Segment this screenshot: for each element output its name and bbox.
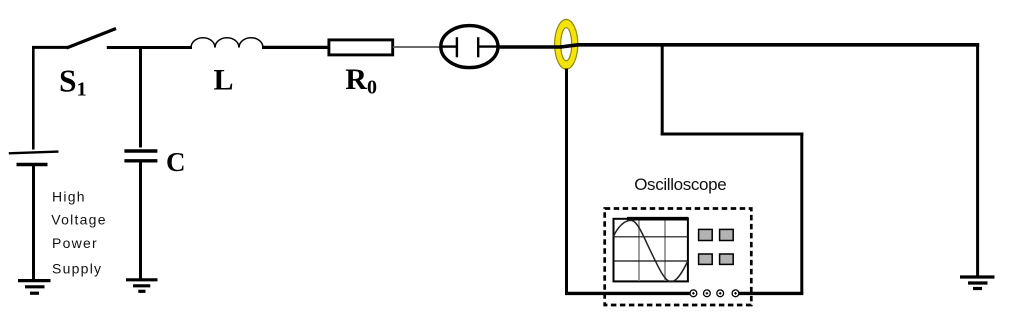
capacitor C: bottom plate xyxy=(124,159,157,162)
wire: vertical down right of scope xyxy=(800,133,803,295)
svg-text:S1: S1 xyxy=(59,63,87,100)
wire: resistor to spark gap (thin) xyxy=(393,46,440,48)
wire: capacitor to ground xyxy=(139,163,142,280)
scope connectors (4 small circles) xyxy=(690,290,739,297)
ground (capacitor) xyxy=(126,280,158,292)
wire: second tap vertical from top wire xyxy=(661,44,664,136)
svg-text:Power: Power xyxy=(52,235,98,251)
ground (right) xyxy=(960,277,995,289)
wire: inductor to resistor xyxy=(262,46,328,49)
wire: ring tap down to scope bottom line xyxy=(565,69,568,295)
wire: battery to ground xyxy=(32,166,35,280)
resistor R0 body xyxy=(329,40,393,55)
spark gap chamber (ellipse) xyxy=(441,26,498,68)
svg-text:High: High xyxy=(52,188,86,204)
svg-text:C: C xyxy=(166,147,186,177)
svg-text:R0: R0 xyxy=(345,63,377,99)
wire: scope bottom line right segment xyxy=(739,292,804,295)
svg-text:Voltage: Voltage xyxy=(51,211,106,227)
wire: horizontal to right above scope xyxy=(661,133,804,136)
screen waveform xyxy=(613,220,688,281)
wire: far right vertical to ground xyxy=(976,43,979,277)
wire: spark gap to right corner (passes over ring) xyxy=(497,45,562,49)
wire: scope bottom line left segment xyxy=(565,292,690,295)
svg-text:L: L xyxy=(214,63,234,96)
battery V1: short plate xyxy=(17,163,48,167)
wire: switch right contact to inductor xyxy=(107,46,192,49)
inductor L xyxy=(191,38,263,48)
screen top thick segment xyxy=(627,217,689,221)
spark gap right electrode xyxy=(477,37,479,57)
oscilloscope screen xyxy=(614,219,688,282)
battery V1: long plate xyxy=(9,152,59,154)
wire: left vertical from switch down to battery xyxy=(32,46,35,150)
svg-text:Oscilloscope: Oscilloscope xyxy=(634,175,726,194)
capacitor C: top plate xyxy=(124,149,157,152)
ground (battery) xyxy=(18,281,51,294)
node: junction to capacitor branch / capacitor C wire xyxy=(139,46,142,148)
current sensor ring (Rogowski coil) xyxy=(555,20,578,70)
screen grid xyxy=(639,219,665,281)
switch S1 blade xyxy=(67,29,117,49)
wire: top-left horizontal to switch xyxy=(32,46,68,49)
spark gap left electrode xyxy=(441,45,457,47)
oscilloscope dashed enclosure xyxy=(605,209,752,306)
scope buttons (4 gray) xyxy=(699,229,734,264)
svg-text:Supply: Supply xyxy=(52,260,102,276)
